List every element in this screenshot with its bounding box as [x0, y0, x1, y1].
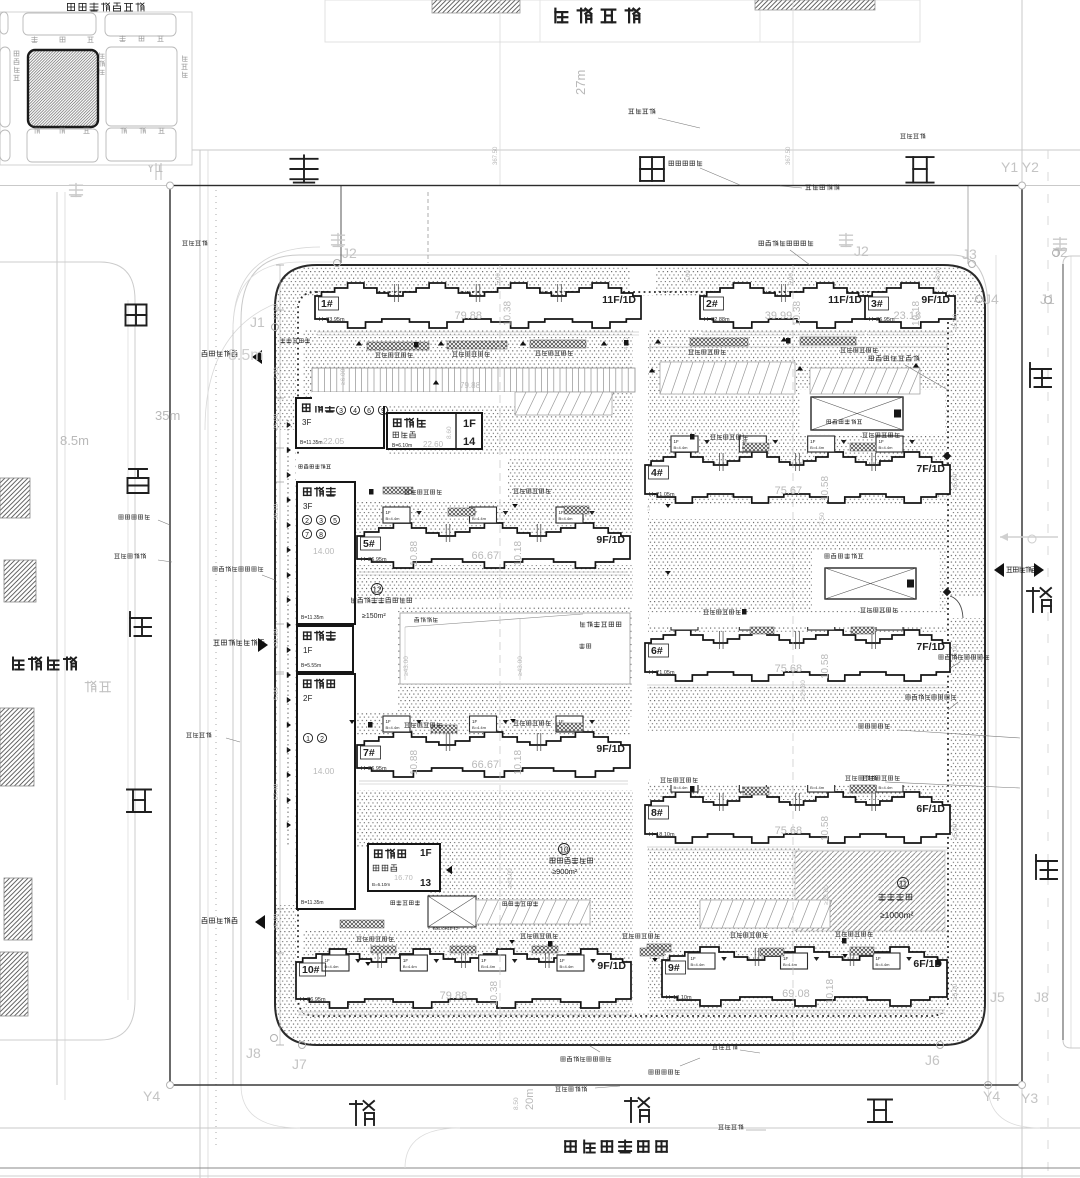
svg-text:6: 6 — [367, 408, 371, 415]
bicycle parking labels — [376, 353, 413, 358]
outer land boundary (zong yongdi fanwei) — [170, 186, 1022, 1086]
svg-text:≥43.00: ≥43.00 — [507, 868, 514, 888]
svg-text:8: 8 — [319, 532, 323, 539]
central dashed survey lines — [499, 265, 501, 1045]
svg-text:79.88: 79.88 — [454, 310, 482, 322]
svg-text:H=26.95m: H=26.95m — [361, 557, 387, 563]
community entrance right — [1007, 567, 1037, 573]
svg-text:1F: 1F — [386, 719, 392, 724]
svg-text:10.18: 10.18 — [513, 750, 524, 775]
svg-text:J1: J1 — [1040, 291, 1055, 307]
svg-text:J4: J4 — [984, 291, 999, 307]
building 9# — [662, 947, 947, 1013]
11-stall diagonal parking center — [476, 900, 591, 924]
road arrow right street — [1000, 536, 1058, 538]
building 4# — [645, 436, 950, 510]
svg-text:13: 13 — [420, 878, 432, 889]
left strip boundary triangles — [287, 422, 291, 428]
svg-text:H=32.88m: H=32.88m — [704, 317, 730, 323]
svg-text:H=21.05m: H=21.05m — [649, 670, 675, 676]
svg-text:9F/1D: 9F/1D — [596, 743, 625, 755]
svg-text:7#: 7# — [363, 747, 375, 759]
building 8# — [645, 776, 950, 850]
car stall block top (long, vertical lines) — [312, 368, 635, 392]
svg-text:J5: J5 — [990, 989, 1005, 1005]
building 7# — [357, 716, 630, 784]
svg-text:≥1000m²: ≥1000m² — [880, 910, 914, 920]
svg-text:1F: 1F — [303, 646, 312, 655]
svg-text:B=11.35m: B=11.35m — [300, 440, 323, 446]
svg-text:10.38: 10.38 — [489, 981, 500, 1006]
svg-text:66.67: 66.67 — [472, 550, 500, 562]
white lane above 8# — [650, 768, 947, 785]
svg-text:≥5.00: ≥5.00 — [952, 313, 959, 330]
svg-text:B=5.55m: B=5.55m — [301, 663, 321, 669]
svg-text:J8: J8 — [246, 1045, 261, 1061]
svg-text:12.50: 12.50 — [273, 303, 280, 320]
svg-text:B=6.10m: B=6.10m — [372, 882, 390, 887]
svg-text:≥900m²: ≥900m² — [552, 867, 578, 876]
svg-text:10.88: 10.88 — [409, 750, 420, 775]
svg-text:7F/1D: 7F/1D — [916, 641, 945, 653]
svg-text:9F/1D: 9F/1D — [597, 960, 626, 972]
annex peijian3 heat-station — [368, 844, 440, 891]
svg-text:≥11.00: ≥11.00 — [273, 628, 280, 648]
svg-text:36.10: 36.10 — [273, 503, 280, 520]
bicycle rack strips — [340, 337, 876, 956]
svg-text:16.70: 16.70 — [394, 873, 413, 882]
gray li marks — [70, 184, 83, 197]
sunken courtyard — [400, 613, 630, 684]
svg-text:B=4.4m: B=4.4m — [783, 962, 798, 967]
svg-text:B0/L-0H12*12: B0/L-0H12*12 — [433, 926, 459, 931]
svg-text:J3: J3 — [962, 246, 977, 262]
building 5# — [357, 507, 630, 575]
group green land hatched — [795, 851, 945, 931]
diag stalls right-b — [810, 368, 920, 394]
label yipi-zaijian (under construction) — [555, 9, 639, 23]
svg-text:10.18: 10.18 — [911, 301, 922, 326]
inset Y mark — [155, 163, 157, 180]
svg-text:8.5m: 8.5m — [228, 347, 264, 364]
svg-text:J7: J7 — [292, 1056, 307, 1072]
white lane below 4# — [650, 505, 947, 519]
left dimension chain — [273, 265, 284, 1045]
svg-text:10.88: 10.88 — [409, 541, 420, 566]
svg-text:9F/1D: 9F/1D — [596, 534, 625, 546]
small label 2-liang parking — [281, 339, 310, 343]
label yipi-yijian (already built) — [13, 658, 76, 670]
right dotted-line diamonds — [943, 452, 951, 460]
svg-text:B=4.4m: B=4.4m — [472, 725, 487, 730]
svg-text:6F/1D: 6F/1D — [916, 803, 945, 815]
svg-text:1F: 1F — [472, 719, 478, 724]
svg-text:367.50: 367.50 — [786, 146, 792, 165]
entrance gap in right band — [949, 596, 984, 618]
label shuini gray — [85, 681, 110, 691]
svg-text:10.38: 10.38 — [792, 301, 803, 326]
svg-text:9: 9 — [381, 408, 385, 415]
svg-text:7.50: 7.50 — [819, 512, 826, 525]
annex peijian2-a — [296, 398, 388, 448]
svg-text:J2: J2 — [342, 245, 357, 261]
svg-text:≥6.00: ≥6.00 — [952, 473, 959, 490]
svg-text:≥29.80: ≥29.80 — [800, 680, 807, 700]
svg-text:10.18: 10.18 — [825, 979, 836, 1004]
svg-text:3: 3 — [339, 408, 343, 415]
svg-text:H=26.95m: H=26.95m — [361, 766, 387, 772]
fire entrance top-left — [202, 351, 237, 357]
svg-text:J2: J2 — [854, 243, 869, 259]
svg-text:10#: 10# — [302, 964, 320, 976]
svg-text:3F: 3F — [302, 418, 311, 427]
svg-text:1F: 1F — [783, 956, 789, 961]
svg-text:367.50: 367.50 — [493, 146, 499, 165]
svg-text:B=4.4m: B=4.4m — [810, 445, 825, 450]
building 2# — [700, 283, 867, 335]
street name Hudong Dadao (left) — [126, 305, 147, 326]
svg-text:J6: J6 — [925, 1052, 940, 1068]
svg-text:8.60: 8.60 — [446, 426, 453, 439]
left street labels — [119, 515, 149, 520]
annex peijian2-b — [297, 482, 355, 624]
top dashed survey verticals — [499, 0, 501, 185]
svg-text:1F: 1F — [810, 439, 816, 444]
svg-text:≥43.00: ≥43.00 — [403, 656, 410, 676]
annex peijian1 — [297, 674, 355, 909]
svg-text:≥28.80: ≥28.80 — [823, 885, 830, 905]
svg-text:39.99: 39.99 — [765, 310, 793, 322]
svg-text:≥6.00: ≥6.00 — [340, 368, 347, 385]
small label dixia cheku podao left — [299, 465, 331, 469]
svg-text:B=4.4m: B=4.4m — [876, 962, 891, 967]
svg-text:B=11.35m: B=11.35m — [301, 900, 324, 906]
svg-text:4: 4 — [353, 408, 357, 415]
svg-text:1F: 1F — [879, 439, 885, 444]
svg-text:1F: 1F — [560, 958, 566, 963]
elderly activity ground — [372, 584, 383, 595]
svg-text:79.88: 79.88 — [440, 990, 468, 1002]
svg-text:8.5m: 8.5m — [60, 433, 89, 448]
svg-text:1F: 1F — [876, 956, 882, 961]
garage ramp mid — [825, 568, 916, 599]
white lanes — [296, 300, 947, 1013]
plan commercial plot label — [565, 1141, 667, 1153]
svg-text:5#: 5# — [363, 538, 375, 550]
svg-text:1F: 1F — [403, 958, 409, 963]
svg-text:3#: 3# — [871, 298, 883, 310]
3-stall label — [391, 901, 420, 906]
svg-text:J1: J1 — [250, 314, 265, 330]
stipple band ring — [275, 265, 985, 1045]
svg-text:4#: 4# — [651, 467, 663, 479]
svg-text:10.58: 10.58 — [820, 816, 831, 841]
svg-text:1: 1 — [306, 736, 310, 743]
svg-text:≥5.00: ≥5.00 — [273, 913, 280, 930]
svg-text:22.05: 22.05 — [323, 436, 345, 446]
boundary connector top-right — [967, 186, 969, 264]
svg-text:7F/1D: 7F/1D — [916, 463, 945, 475]
svg-text:35m: 35m — [155, 408, 180, 423]
svg-text:79.88: 79.88 — [460, 381, 481, 390]
svg-text:J2: J2 — [1053, 244, 1068, 260]
svg-text:H=26.95m: H=26.95m — [300, 997, 326, 1003]
svg-text:1F: 1F — [463, 418, 476, 430]
inset hatched plot — [28, 50, 98, 127]
group green land label — [898, 878, 909, 889]
building 1# — [315, 283, 641, 335]
svg-text:Y4: Y4 — [983, 1088, 1000, 1104]
svg-text:≥5.00: ≥5.00 — [952, 823, 959, 840]
left neighbour block (built) — [0, 262, 135, 1040]
svg-text:B=4.4m: B=4.4m — [810, 785, 825, 790]
street name Binhu Jie (top) — [290, 155, 317, 182]
svg-text:1F: 1F — [420, 848, 432, 859]
svg-text:2: 2 — [305, 518, 309, 525]
svg-text:7: 7 — [305, 532, 309, 539]
svg-text:7.60: 7.60 — [273, 367, 280, 380]
building 10# — [296, 949, 631, 1015]
white lane below stalls — [312, 392, 515, 406]
svg-text:≥43.00: ≥43.00 — [517, 656, 524, 676]
annex peijian2-c — [297, 626, 353, 672]
fire lane dashed top — [427, 192, 429, 263]
diag stalls bottom center — [700, 900, 832, 928]
svg-text:1F: 1F — [691, 956, 697, 961]
svg-text:5: 5 — [333, 518, 337, 525]
svg-text:B=11.35m: B=11.35m — [301, 615, 324, 621]
svg-text:B=4.4m: B=4.4m — [403, 964, 418, 969]
svg-text:B=4.4m: B=4.4m — [879, 445, 894, 450]
svg-text:2: 2 — [320, 736, 324, 743]
svg-text:1F: 1F — [481, 958, 487, 963]
svg-text:B=4.4m: B=4.4m — [481, 964, 496, 969]
svg-text:14: 14 — [463, 436, 476, 448]
svg-text:Y4: Y4 — [143, 1088, 160, 1104]
street name Qingshui Lu (right) — [1030, 363, 1051, 387]
svg-text:H=21.05m: H=21.05m — [649, 492, 675, 498]
svg-text:Y3: Y3 — [1021, 1090, 1038, 1106]
svg-text:75.68: 75.68 — [775, 663, 803, 675]
inset title — [68, 3, 145, 11]
building 3# — [865, 283, 955, 335]
svg-text:5.00: 5.00 — [686, 270, 692, 282]
svg-text:H=33.95m: H=33.95m — [319, 317, 345, 323]
svg-text:75.68: 75.68 — [775, 825, 803, 837]
svg-text:75.67: 75.67 — [775, 485, 803, 497]
svg-text:B=4.4m: B=4.4m — [559, 516, 574, 521]
svg-text:H=26.95m: H=26.95m — [869, 317, 895, 323]
svg-text:1F: 1F — [386, 510, 392, 515]
inset street names — [32, 37, 94, 43]
top hatched building strip A — [432, 0, 520, 13]
right street labels — [901, 134, 925, 139]
top neighbour outline — [325, 0, 920, 42]
svg-text:10.58: 10.58 — [820, 654, 831, 679]
svg-text:B=4.4m: B=4.4m — [674, 445, 689, 450]
top street labels — [629, 109, 655, 114]
pedestrian entrance left — [214, 640, 264, 646]
svg-text:57.40: 57.40 — [273, 783, 280, 800]
svg-text:B=4.4m: B=4.4m — [879, 785, 894, 790]
bicycle ramp box — [428, 896, 476, 927]
inner site boundary (jienei jianshe yongdi) — [275, 265, 985, 1045]
svg-text:5.00: 5.00 — [789, 273, 795, 285]
svg-text:B=4.4m: B=4.4m — [325, 964, 340, 969]
svg-text:2F: 2F — [303, 694, 312, 703]
svg-text:14.00: 14.00 — [313, 546, 335, 556]
svg-text:27m: 27m — [573, 70, 588, 95]
svg-text:B=4.4m: B=4.4m — [472, 516, 487, 521]
svg-text:9F/1D: 9F/1D — [921, 294, 950, 306]
residents fitness ground — [559, 844, 570, 855]
svg-text:66.67: 66.67 — [472, 759, 500, 771]
svg-text:H=18.10m: H=18.10m — [649, 832, 675, 838]
arrow right of peijian3 — [446, 866, 452, 874]
svg-text:J8: J8 — [1034, 989, 1049, 1005]
svg-text:14.00: 14.00 — [313, 766, 335, 776]
bottom street labels — [561, 1057, 611, 1062]
diag stalls right-a — [660, 362, 795, 394]
white surround ramp mid — [812, 550, 939, 611]
svg-text:B=4.4m: B=4.4m — [691, 962, 706, 967]
annex peijian4 heat-exchange — [387, 413, 482, 449]
svg-text:5.00: 5.00 — [496, 273, 502, 285]
svg-text:2#: 2# — [706, 298, 718, 310]
svg-text:10: 10 — [559, 845, 569, 854]
svg-text:5.00: 5.00 — [273, 687, 280, 700]
top hatched building strip B — [755, 0, 875, 10]
svg-text:1F: 1F — [325, 958, 331, 963]
svg-text:B=4.4m: B=4.4m — [674, 785, 689, 790]
svg-text:10.58: 10.58 — [820, 476, 831, 501]
svg-text:8#: 8# — [651, 807, 663, 819]
white surround ramp north — [800, 390, 945, 434]
street name Xiushui Jie (bottom) — [350, 1101, 374, 1125]
svg-text:Y1 Y2: Y1 Y2 — [1001, 159, 1039, 175]
svg-text:12: 12 — [372, 585, 382, 594]
svg-text:8.50: 8.50 — [513, 1097, 520, 1110]
svg-text:≥5.00: ≥5.00 — [936, 266, 942, 282]
left strip dotted line — [287, 420, 289, 845]
top dim line right column — [650, 346, 947, 348]
svg-text:H=18.10m: H=18.10m — [666, 995, 692, 1001]
underground garage dotted outline — [298, 292, 948, 1016]
fire entrance bottom-left — [202, 918, 237, 924]
interior stipple patches — [303, 330, 947, 1013]
svg-text:1#: 1# — [321, 298, 333, 310]
garage ramp north — [811, 397, 903, 430]
svg-text:≥5.00: ≥5.00 — [952, 983, 959, 1000]
svg-text:11F/1D: 11F/1D — [828, 294, 862, 306]
svg-text:B=4.4m: B=4.4m — [386, 725, 401, 730]
svg-text:20m: 20m — [524, 1089, 536, 1110]
boundary connector top-left — [340, 186, 342, 263]
diag stalls center — [515, 392, 614, 415]
svg-text:9#: 9# — [668, 962, 680, 974]
svg-text:10.18: 10.18 — [513, 541, 524, 566]
svg-text:1F: 1F — [674, 439, 680, 444]
white left service strip — [277, 430, 296, 905]
svg-text:3F: 3F — [303, 502, 312, 511]
lane arrows — [512, 504, 518, 508]
svg-text:11F/1D: 11F/1D — [602, 294, 636, 306]
svg-text:1F: 1F — [559, 510, 565, 515]
svg-text:25.00: 25.00 — [273, 413, 280, 430]
svg-text:B=6.10m: B=6.10m — [392, 443, 412, 449]
svg-text:11: 11 — [899, 879, 908, 888]
svg-text:6#: 6# — [651, 645, 663, 657]
svg-text:10.38: 10.38 — [503, 301, 514, 326]
svg-text:69.08: 69.08 — [782, 988, 810, 1000]
svg-text:22.60: 22.60 — [423, 440, 444, 449]
svg-text:3: 3 — [319, 518, 323, 525]
svg-text:B=4.4m: B=4.4m — [386, 516, 401, 521]
building 6# — [645, 614, 950, 688]
svg-text:B=4.4m: B=4.4m — [560, 964, 575, 969]
inset location map — [0, 12, 192, 165]
svg-text:≥150m²: ≥150m² — [362, 613, 386, 620]
right dimension chain — [952, 313, 959, 1000]
trash bin marks — [414, 342, 419, 348]
